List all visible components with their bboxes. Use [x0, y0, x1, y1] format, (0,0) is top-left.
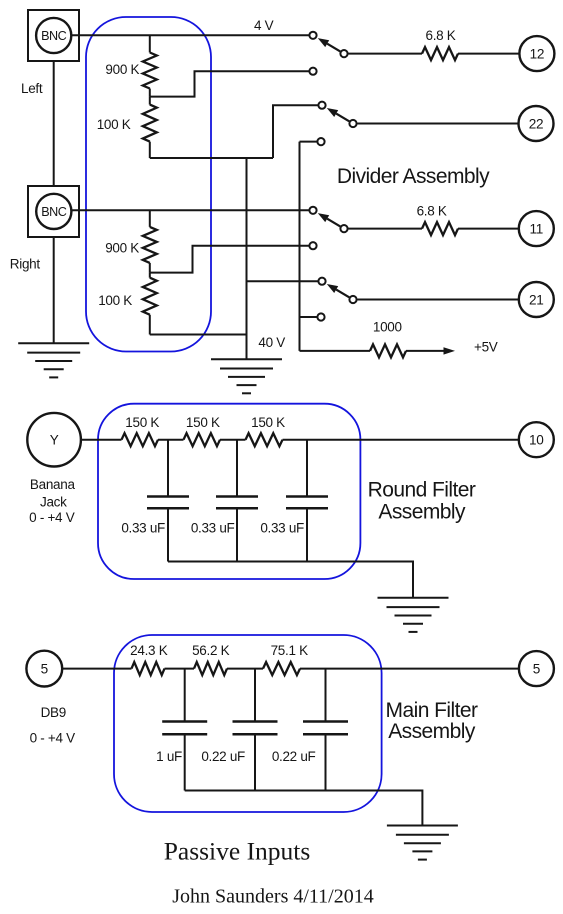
svg-text:Y: Y	[50, 433, 59, 448]
svg-text:6.8 K: 6.8 K	[417, 203, 447, 218]
terminal pin 21	[519, 282, 554, 317]
wire S2 pole to terminal 22	[357, 123, 518, 125]
svg-text:900 K: 900 K	[105, 240, 139, 255]
wire rail up to switch S2 common	[273, 105, 318, 158]
value label 1000	[373, 320, 402, 335]
svg-text:150 K: 150 K	[251, 415, 285, 430]
svg-text:75.1 K: 75.1 K	[271, 643, 309, 658]
wire S4 pole to terminal 21	[357, 299, 519, 301]
wire J2 to ground	[53, 237, 55, 343]
resistor 150 K (second)	[184, 433, 220, 446]
capacitor 1 uF	[162, 669, 207, 791]
wire capacitor common rail to ground	[185, 791, 423, 826]
svg-text:5: 5	[41, 661, 48, 676]
wire filter output to terminal 10	[283, 439, 519, 441]
svg-text:5: 5	[533, 661, 540, 676]
svg-text:12: 12	[530, 46, 545, 61]
label Left	[21, 81, 43, 96]
wire between 56.2K and 75.1K	[227, 668, 263, 670]
resistor 100K (left divider bottom)	[143, 97, 157, 158]
wire J1 to J2	[53, 61, 55, 186]
svg-text:0.33 uF: 0.33 uF	[260, 521, 304, 536]
wire between 150K (2-3)	[220, 439, 246, 441]
value label 0.33 uF (2)	[191, 521, 235, 536]
label Round Filter Assembly	[368, 479, 476, 524]
terminal pin 5 (output)	[519, 651, 554, 686]
svg-text:100 K: 100 K	[98, 293, 132, 308]
wire bottom rail (right divider)	[150, 334, 247, 336]
capacitor 0.33 uF (second)	[216, 440, 258, 562]
title Passive Inputs	[164, 837, 311, 866]
wire DB9 to filter	[62, 668, 131, 670]
resistor 75.1 K	[263, 662, 300, 675]
value label 150 K (2)	[186, 415, 220, 430]
wire resistor to terminal 11	[458, 228, 519, 230]
resistor 56.2 K	[194, 662, 227, 675]
resistor 6.8 K (to pin 11)	[422, 222, 458, 235]
label Right	[10, 257, 41, 272]
svg-text:Right: Right	[10, 257, 41, 272]
label Divider Assembly	[337, 165, 490, 188]
terminal pin 11	[519, 211, 554, 246]
capacitor 0.22 uF (second)	[303, 669, 348, 791]
wire bus to +5V resistor	[299, 142, 301, 351]
contact NC2	[317, 138, 324, 145]
svg-text:22: 22	[529, 116, 544, 131]
node 4 V label	[254, 18, 274, 33]
value label 24.3 K	[130, 643, 168, 658]
value label 900 K	[105, 62, 139, 77]
label Banana Jack 0 - +4 V	[29, 477, 75, 525]
ground (input common)	[18, 343, 89, 377]
value label 1 uF	[156, 749, 182, 764]
value label 100 K (right divider)	[98, 293, 132, 308]
svg-text:0.33 uF: 0.33 uF	[191, 521, 235, 536]
svg-text:10: 10	[529, 433, 544, 448]
wire ground bus (divider common)	[246, 158, 248, 359]
value label 150 K (3)	[251, 415, 285, 430]
label Main Filter Assembly	[386, 699, 479, 743]
terminal pin 10	[519, 422, 554, 457]
wire S3 pole to resistor 6.8K	[348, 228, 422, 230]
resistor 100K (right divider bottom)	[143, 273, 157, 335]
switch S3	[309, 207, 347, 233]
wire NC4 stub	[300, 316, 318, 318]
svg-text:0 - +4 V: 0 - +4 V	[29, 510, 75, 525]
svg-text:150 K: 150 K	[125, 415, 159, 430]
resistor 1000 (pull-up to +5V)	[370, 344, 406, 357]
svg-text:John Saunders 4/11/2014: John Saunders 4/11/2014	[172, 886, 373, 908]
value label 75.1 K	[271, 643, 309, 658]
svg-text:0.22 uF: 0.22 uF	[201, 749, 245, 764]
terminal pin 12	[519, 36, 554, 71]
wire between 24.3K and 56.2K	[165, 668, 195, 670]
blue enclosure Divider Assembly	[86, 17, 211, 352]
wire bottom rail (left divider)	[150, 157, 273, 159]
svg-text:Left: Left	[21, 81, 43, 96]
wire J1 output to switch S1 (4 V net)	[72, 34, 310, 36]
svg-text:0.22 uF: 0.22 uF	[272, 749, 316, 764]
value label 0.22 uF (2)	[272, 749, 316, 764]
value label 0.33 uF (1)	[121, 521, 165, 536]
svg-text:100 K: 100 K	[97, 117, 131, 132]
resistor 6.8 K (to pin 12)	[422, 47, 458, 60]
BNC connector J1 (Left)	[28, 10, 79, 61]
wire resistor to terminal 12	[458, 53, 519, 55]
wire NC2 stub	[300, 141, 318, 143]
capacitor 0.22 uF (first)	[233, 669, 278, 791]
wire S1 pole to resistor 6.8K	[348, 53, 422, 55]
wire capacitor common rail to ground	[168, 562, 413, 598]
contact NC3	[309, 242, 316, 249]
value label 6.8 K	[425, 28, 455, 43]
banana jack Y terminal	[27, 413, 81, 467]
svg-text:Passive Inputs: Passive Inputs	[164, 837, 311, 866]
svg-text:900 K: 900 K	[105, 62, 139, 77]
svg-text:150 K: 150 K	[186, 415, 220, 430]
terminal 5 (DB9 input)	[26, 651, 62, 687]
subtitle John Saunders 4/11/2014	[172, 886, 373, 908]
value label 6.8 K (pin 11)	[417, 203, 447, 218]
svg-text:24.3 K: 24.3 K	[130, 643, 168, 658]
blue enclosure Round Filter Assembly	[98, 404, 360, 579]
svg-text:1000: 1000	[373, 320, 402, 335]
resistor 150 K (first)	[122, 433, 158, 446]
svg-text:40 V: 40 V	[258, 335, 285, 350]
svg-text:4 V: 4 V	[254, 18, 274, 33]
svg-text:0 - +4 V: 0 - +4 V	[30, 731, 76, 746]
svg-text:11: 11	[530, 221, 544, 236]
label 40 V	[258, 335, 285, 350]
wire to pull-up resistor 1000	[300, 350, 371, 352]
resistor 150 K (third)	[246, 433, 283, 446]
svg-text:Main Filter: Main Filter	[386, 699, 479, 722]
wire filter output to terminal 5	[300, 668, 519, 670]
svg-text:21: 21	[529, 292, 544, 307]
svg-text:56.2 K: 56.2 K	[192, 643, 230, 658]
blue enclosure Main Filter Assembly	[114, 635, 382, 812]
value label 100 K	[97, 117, 131, 132]
svg-text:1 uF: 1 uF	[156, 749, 182, 764]
svg-text:Assembly: Assembly	[378, 500, 466, 523]
svg-text:Banana: Banana	[30, 477, 76, 492]
svg-text:6.8 K: 6.8 K	[425, 28, 455, 43]
resistor 24.3 K	[132, 662, 165, 675]
switch S2 (selects ground)	[318, 102, 356, 128]
svg-text:Round Filter: Round Filter	[368, 479, 476, 502]
wire between 150K (1-2)	[158, 439, 184, 441]
svg-text:+5V: +5V	[474, 340, 498, 355]
svg-text:Jack: Jack	[40, 495, 67, 510]
ground (divider assembly)	[211, 359, 282, 393]
BNC connector J2 (Right)	[28, 186, 79, 237]
wire S4 common stub	[247, 280, 319, 282]
svg-text:BNC: BNC	[41, 29, 66, 43]
value label 150 K (1)	[125, 415, 159, 430]
wire Y jack to filter	[81, 439, 122, 441]
label DB9 0 - +4 V	[30, 705, 76, 745]
svg-text:BNC: BNC	[41, 205, 66, 219]
value label 56.2 K	[192, 643, 230, 658]
capacitor 0.33 uF (first)	[147, 440, 189, 562]
contact NC1	[309, 68, 316, 75]
contact NC4	[317, 313, 324, 320]
switch S1 (selects 4 V)	[309, 32, 347, 58]
wire divider-2 tap to contact NC3	[150, 246, 309, 273]
svg-text:Assembly: Assembly	[388, 720, 476, 743]
ground (main filter)	[387, 826, 458, 860]
switch S4	[318, 278, 356, 304]
resistor 900K (left divider top)	[143, 35, 157, 96]
wire and arrow to +5V	[406, 347, 455, 354]
value label 900 K (right divider)	[105, 240, 139, 255]
value label 0.22 uF (1)	[201, 749, 245, 764]
label +5V	[474, 340, 498, 355]
wire divider-1 tap to contact NC1	[150, 71, 309, 96]
terminal pin 22	[519, 106, 554, 141]
resistor 900K (right divider top)	[143, 210, 157, 272]
svg-text:DB9: DB9	[41, 705, 66, 720]
capacitor 0.33 uF (third)	[286, 440, 328, 562]
ground (round filter)	[378, 598, 449, 632]
value label 0.33 uF (3)	[260, 521, 304, 536]
svg-text:0.33 uF: 0.33 uF	[121, 521, 165, 536]
wire J2 output to switch S3	[72, 209, 310, 211]
svg-text:Divider Assembly: Divider Assembly	[337, 165, 490, 188]
